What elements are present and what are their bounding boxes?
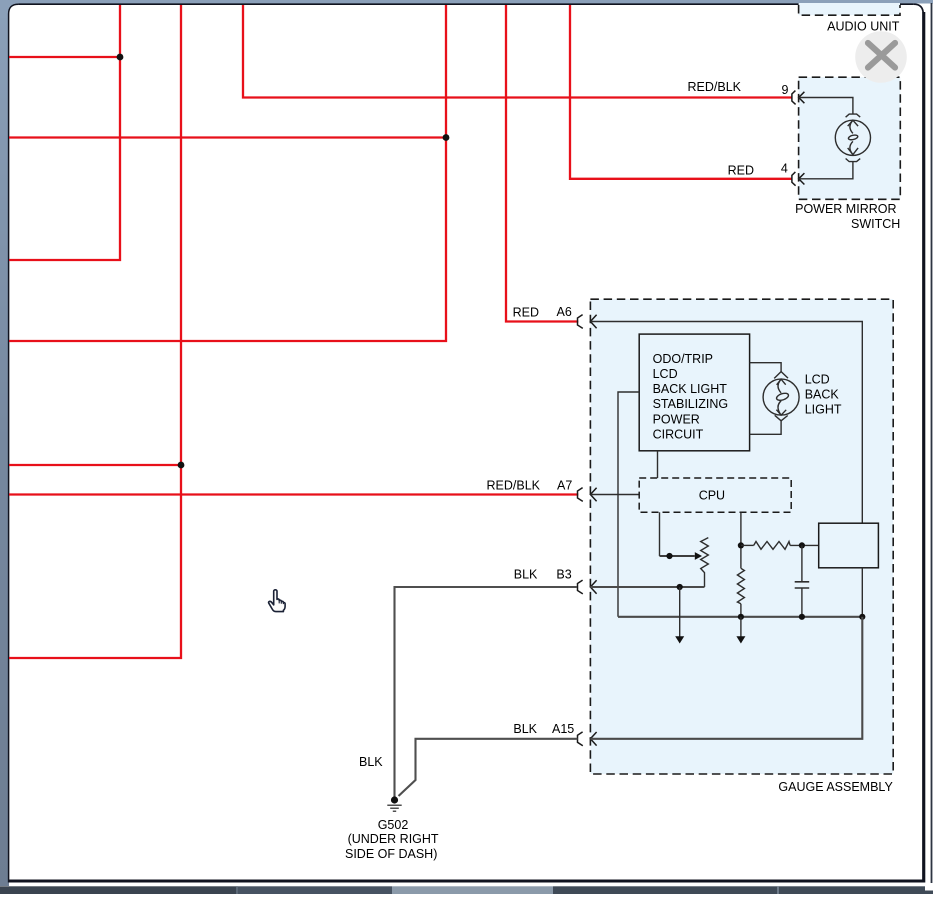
svg-text:RED/BLK: RED/BLK [688, 80, 742, 94]
svg-text:A15: A15 [552, 722, 574, 736]
bottom bar segment 1 [0, 886, 237, 894]
resistor R3 [754, 542, 790, 550]
wire ODO box to lamp top [750, 363, 782, 372]
capacitor C1 bottom lead [801, 588, 803, 617]
ODO/TRIP circuit box U1 [639, 334, 749, 451]
bottom bar segment 4 [553, 886, 933, 894]
wire red V1+H4 (left column to edge) [9, 5, 120, 260]
window frame left strip [0, 0, 9, 886]
connector A15 [578, 732, 597, 746]
dialog panel border top [18, 3, 913, 5]
dialog panel border right [914, 4, 924, 882]
svg-text:CPU: CPU [699, 488, 725, 502]
wire red H8 [9, 464, 181, 466]
wire CPU drop to wiper [659, 512, 661, 556]
svg-text:BACK LIGHT: BACK LIGHT [653, 382, 728, 396]
connector A7 [578, 488, 597, 502]
gauge assembly box [590, 299, 893, 774]
wire R2 bottom to rail [740, 604, 742, 617]
node junction dot R3 right [799, 542, 805, 548]
svg-text:B3: B3 [556, 568, 571, 582]
svg-text:RED: RED [728, 164, 754, 178]
wire A6 internal to right bus [591, 322, 863, 524]
svg-text:LIGHT: LIGHT [805, 403, 842, 417]
wire rail to ground arrow 2 [740, 617, 742, 638]
svg-text:A7: A7 [557, 478, 572, 492]
connector B3 [578, 580, 597, 594]
svg-text:(UNDER RIGHT: (UNDER RIGHT [348, 832, 439, 846]
bottom bar segment 3 light [392, 886, 553, 894]
svg-text:LCD: LCD [805, 372, 830, 386]
svg-text:LCD: LCD [653, 367, 678, 381]
svg-text:A6: A6 [557, 305, 572, 319]
wire pin4 internal [799, 162, 853, 179]
wire B3 external [395, 587, 578, 797]
svg-text:CIRCUIT: CIRCUIT [653, 428, 704, 442]
bottom bar divider 2 [236, 886, 238, 894]
wire R3 left lead [741, 544, 754, 546]
node junction dot V1/H1 [117, 54, 124, 61]
svg-text:BLK: BLK [513, 722, 537, 736]
ground G502 symbol [387, 796, 401, 811]
svg-text:SWITCH: SWITCH [851, 217, 900, 231]
resistor R1 potentiometer [701, 538, 709, 587]
wire right bus down to A15 [590, 617, 862, 739]
cursor hand pointer [269, 590, 285, 612]
bottom bar divider [777, 886, 779, 894]
window frame top strip [0, 0, 933, 4]
bottom right gutter patch [925, 883, 933, 891]
svg-text:BLK: BLK [359, 755, 383, 769]
dialog panel border left [9, 4, 19, 882]
wire ODO box left to ground rail leg [618, 392, 639, 617]
node junction dot R2/R3 [738, 542, 744, 548]
connector A6 [578, 315, 597, 329]
wire red V5+H5 (to A6) [506, 5, 578, 322]
svg-text:AUDIO UNIT: AUDIO UNIT [827, 20, 900, 34]
svg-text:GAUGE ASSEMBLY: GAUGE ASSEMBLY [778, 780, 893, 794]
ground arrow 2 [736, 636, 745, 643]
svg-text:G502: G502 [378, 818, 409, 832]
lamp LCD back light [763, 372, 799, 421]
connector pin 9 [792, 91, 805, 105]
node junction dot V2/H8 [178, 462, 185, 469]
resistor R2 [737, 568, 744, 604]
node junction dot rail/R2 [738, 614, 744, 620]
connector pin 4 [792, 172, 805, 186]
wire wiper horizontal [660, 555, 695, 557]
svg-text:POWER MIRROR: POWER MIRROR [795, 202, 896, 216]
wire red H1 [9, 56, 120, 58]
ground arrow 1 [675, 636, 684, 643]
node junction dot rail/C1 [799, 614, 805, 620]
wire A15 external [399, 739, 578, 796]
wire B3 dot to ground arrow [679, 587, 681, 638]
node dot on wiper wire [666, 553, 672, 559]
svg-text:RED: RED [513, 306, 539, 320]
capacitor C1 top lead [801, 545, 803, 581]
svg-text:4: 4 [781, 161, 788, 175]
capacitor C1 plates [795, 582, 810, 588]
wire R3 right lead to box [790, 544, 819, 546]
lamp mirror switch illumination [835, 114, 870, 162]
wire red V3+H2 (to pin 9) [243, 5, 792, 98]
wire A7 internal to CPU [591, 494, 640, 496]
svg-text:BACK: BACK [805, 388, 840, 402]
svg-text:9: 9 [782, 83, 789, 97]
svg-text:BLK: BLK [514, 568, 538, 582]
wire B3 internal [590, 586, 704, 588]
wire red H9 (to A7) [9, 493, 578, 495]
wire red V4+H7 [9, 5, 446, 341]
wire red V6+H6 (to pin 4) [570, 5, 792, 179]
wire red H3 [9, 136, 446, 138]
wire ODO box to lamp bottom [750, 421, 782, 435]
node junction dot V4/H3 [443, 134, 450, 141]
CPU box U2 [639, 478, 791, 512]
page right edge line [931, 3, 933, 886]
bottom bar segment 2 [237, 886, 392, 894]
svg-text:STABILIZING: STABILIZING [653, 397, 728, 411]
wire ODO box bottom to CPU top [657, 451, 659, 478]
wire pin9 internal [799, 98, 853, 115]
svg-text:ODO/TRIP: ODO/TRIP [653, 352, 713, 366]
node junction dot B3 [677, 584, 683, 590]
wiper arrowhead [695, 552, 702, 560]
svg-text:SIDE OF DASH): SIDE OF DASH) [345, 847, 437, 861]
node junction dot rail/right bus [859, 614, 865, 620]
component box U3 [819, 523, 879, 568]
wire ground rail [618, 616, 862, 618]
svg-text:POWER: POWER [653, 412, 700, 426]
bottom black border of panel [9, 880, 923, 883]
wire red V2+H10 [9, 5, 181, 658]
audio unit box (partial, bottom visible) [799, 3, 900, 15]
frame corner patch top-left [0, 0, 22, 18]
power mirror switch box [799, 77, 901, 199]
wire U3 bottom to rail [861, 568, 863, 617]
svg-text:RED/BLK: RED/BLK [487, 478, 541, 492]
wire CPU drop to R2 [740, 512, 742, 568]
close button [855, 31, 907, 83]
